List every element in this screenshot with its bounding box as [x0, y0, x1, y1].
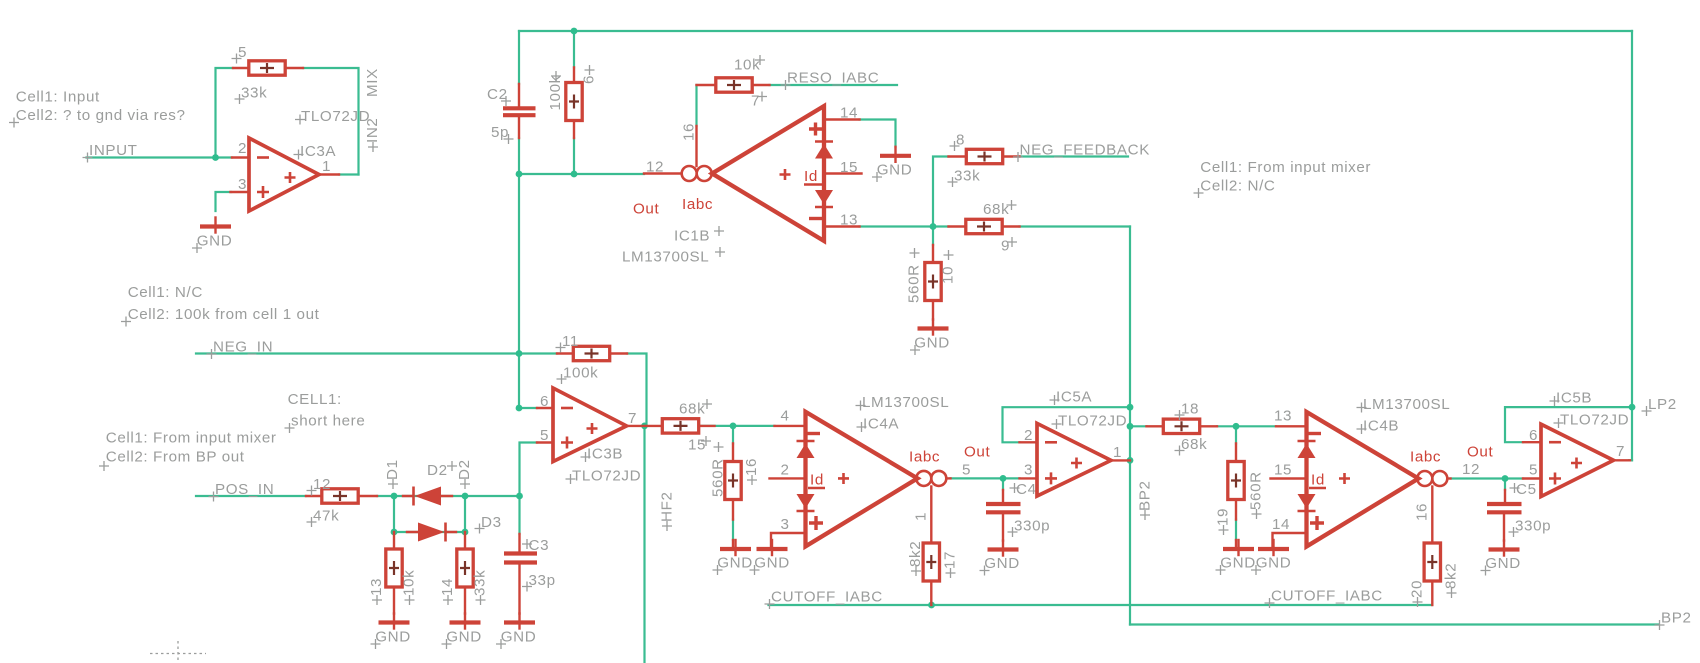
wire: IC3A feedback vertical — [216, 68, 234, 158]
svg-text:MIX: MIX — [364, 68, 381, 97]
node: diode row left top junction — [391, 493, 398, 500]
resistor R18 68k — [1147, 401, 1218, 456]
wire: BP2 long vertical — [1129, 227, 1131, 625]
diode D2 (upper, cathode left) — [384, 459, 473, 505]
svg-text:short here: short here — [291, 413, 365, 430]
wire: R16 bottom green segment — [732, 520, 734, 541]
net label BP2 (rotated, on vertical) — [1137, 480, 1154, 520]
svg-text:1: 1 — [913, 512, 930, 521]
op-amp OTA IC1B LM13700 (points left) — [622, 105, 862, 266]
svg-text:5: 5 — [962, 462, 971, 479]
svg-text:NEG_FEEDBACK: NEG_FEEDBACK — [1020, 142, 1150, 159]
svg-text:POS_IN: POS_IN — [215, 481, 274, 498]
resistor R10 560R (vertical) — [906, 245, 957, 320]
net label MIX (rotated) — [364, 68, 381, 97]
svg-text:Out: Out — [964, 444, 990, 461]
svg-text:14: 14 — [1272, 516, 1290, 533]
svg-text:4: 4 — [781, 408, 790, 425]
svg-text:C4: C4 — [1016, 481, 1037, 498]
wire: HF2 vertical to sheet bottom — [643, 426, 645, 663]
svg-text:Cell2: ? to gnd via res?: Cell2: ? to gnd via res? — [16, 107, 186, 124]
svg-text:2: 2 — [781, 462, 790, 479]
wire: POS_IN after R12 through diode row — [377, 495, 520, 497]
wire: LP2 junction down to IC5B output level — [1631, 407, 1633, 460]
svg-text:12: 12 — [646, 159, 664, 176]
svg-text:Cell2: 100k from cell 1 out: Cell2: 100k from cell 1 out — [128, 306, 320, 323]
svg-text:Cell2: From BP out: Cell2: From BP out — [106, 449, 245, 466]
wire: LP2 right vertical down to LP2 junction — [1631, 31, 1633, 407]
svg-text:TLO72JD: TLO72JD — [572, 468, 641, 485]
svg-text:8k2: 8k2 — [1443, 563, 1460, 589]
op-amp OTA IC4A LM13700 (points right) — [770, 394, 991, 549]
node: diode row right bottom junction — [462, 529, 469, 536]
wire: IC5B feedback loop — [1505, 407, 1632, 442]
svg-text:1: 1 — [1113, 444, 1122, 461]
svg-text:GND: GND — [1256, 555, 1292, 572]
svg-text:330p: 330p — [1014, 518, 1050, 535]
svg-text:8k2: 8k2 — [907, 541, 924, 567]
svg-text:GND: GND — [914, 335, 950, 352]
capacitor C4 330p — [986, 481, 1050, 541]
wire: R18 right to IC4B pin13 — [1217, 425, 1276, 427]
svg-text:47k: 47k — [313, 508, 339, 525]
resistor R11 100k — [556, 333, 628, 384]
node: diode row left bottom junction — [391, 529, 398, 536]
node: R17 bottom CUTOFF junction — [928, 602, 935, 609]
node: IC3B pin6 junction — [516, 405, 523, 412]
svg-text:19: 19 — [1215, 508, 1232, 526]
sheet origin marker (dashed cross) — [150, 641, 206, 663]
resistor R12 47k — [306, 476, 377, 527]
comment: right cell note — [1194, 159, 1372, 198]
net label BP2 (bottom right) — [1655, 610, 1692, 631]
ground for R16 — [713, 540, 753, 575]
node: IC3A input junction — [212, 154, 219, 161]
svg-text:16: 16 — [1414, 503, 1431, 521]
wire: lower diode row horizontal — [394, 531, 465, 533]
wire: IC3A output stub green — [339, 173, 359, 175]
wire: IC4A out to node and IC5A pin3 — [951, 477, 1020, 479]
wire: R15 right to IC4A pin4 — [700, 425, 775, 427]
svg-text:33k: 33k — [954, 168, 980, 185]
svg-text:IC3B: IC3B — [587, 446, 623, 463]
svg-text:16: 16 — [681, 123, 698, 141]
svg-text:IC5B: IC5B — [1556, 390, 1592, 407]
net label CUTOFF_IABC (right) — [1265, 588, 1383, 609]
wire: C5 top green segment — [1504, 479, 1506, 491]
ground for R19 — [1216, 540, 1256, 575]
resistor R5 33k (IC3A feedback) — [232, 44, 304, 104]
svg-text:13: 13 — [368, 578, 385, 596]
wire: IC3B out node to R15 — [645, 425, 647, 427]
svg-text:TLO72JD: TLO72JD — [1560, 412, 1629, 429]
wire: IC1B pin14 to GND — [860, 120, 896, 148]
wire: NEG_FEEDBACK after R8 — [1020, 155, 1129, 157]
svg-text:Cell1: From input mixer: Cell1: From input mixer — [106, 430, 277, 447]
svg-text:IC4A: IC4A — [863, 416, 899, 433]
resistor R20 8k2 (vertical, Iabc) — [1409, 543, 1460, 607]
svg-text:IC1B: IC1B — [674, 228, 710, 245]
ground for IC1B pin14 — [872, 147, 912, 182]
wire: IC3A pin3 wire to GND — [216, 192, 232, 211]
svg-text:IC5A: IC5A — [1056, 389, 1092, 406]
node: NEG_IN junction — [516, 350, 523, 357]
svg-text:33p: 33p — [529, 572, 556, 589]
svg-text:Out: Out — [1467, 444, 1493, 461]
resistor R19 560R (vertical) — [1215, 444, 1265, 536]
ground for C4 — [980, 541, 1020, 576]
wire: NEG_IN horizontal — [196, 352, 557, 354]
comment: CELL1 short here note — [285, 391, 366, 433]
svg-text:IC3A: IC3A — [300, 143, 336, 160]
svg-text:GND: GND — [1220, 555, 1256, 572]
svg-text:10k: 10k — [401, 570, 418, 596]
svg-text:LM13700SL: LM13700SL — [1363, 396, 1450, 413]
svg-text:TLO72JD: TLO72JD — [301, 108, 370, 125]
node: R18 branch junction — [1127, 423, 1134, 430]
svg-text:Iabc: Iabc — [909, 449, 940, 466]
svg-text:6: 6 — [540, 393, 549, 410]
svg-text:560R: 560R — [710, 458, 727, 497]
svg-text:TLO72JD: TLO72JD — [1058, 413, 1127, 430]
svg-text:5: 5 — [540, 427, 549, 444]
svg-text:BP2: BP2 — [1137, 480, 1154, 511]
node: R6 top junction — [571, 28, 578, 35]
svg-text:GND: GND — [1485, 555, 1521, 572]
wire: diode column left vertical — [393, 496, 395, 532]
resistor R17 8k2 (vertical, Iabc) — [907, 541, 959, 605]
wire: POS_IN horizontal — [196, 495, 306, 497]
node: IC5A output junction — [1127, 457, 1134, 464]
node: IC5A feedback junction — [1127, 404, 1134, 411]
svg-text:GND: GND — [446, 629, 482, 646]
svg-text:14: 14 — [439, 578, 456, 596]
wire: R9 right to long vertical — [1020, 225, 1131, 227]
svg-text:HF2: HF2 — [659, 492, 676, 523]
wire: C2 bottom green segment — [518, 138, 520, 174]
svg-text:12: 12 — [1462, 461, 1480, 478]
svg-text:5: 5 — [1529, 462, 1538, 479]
op-amp OTA IC4B LM13700 (points right) — [1271, 396, 1494, 549]
svg-text:C3: C3 — [529, 537, 550, 554]
svg-text:LM13700SL: LM13700SL — [622, 249, 709, 266]
svg-text:7: 7 — [751, 93, 760, 110]
wire: node down to R19 — [1235, 426, 1237, 443]
wire: C3 top green segment — [518, 496, 520, 534]
diode inside IC4B upper — [1298, 440, 1316, 443]
svg-text:15: 15 — [840, 159, 858, 176]
node: IC4A out / C4 junction — [1000, 475, 1007, 482]
svg-text:NEG_IN: NEG_IN — [213, 339, 273, 356]
svg-text:D2: D2 — [456, 459, 473, 480]
resistor R8 33k (to NEG_FEEDBACK) — [948, 132, 1020, 188]
net label IN2 (rotated) — [364, 118, 381, 152]
ground for R13 — [371, 614, 411, 650]
wire: R7 left corner down to IC1B pin16 — [695, 85, 697, 126]
svg-text:C5: C5 — [1516, 481, 1537, 498]
svg-text:CUTOFF_IABC: CUTOFF_IABC — [1271, 588, 1383, 605]
svg-text:9: 9 — [1001, 238, 1010, 255]
net label NEG_IN — [207, 339, 274, 360]
capacitor C2 5p — [487, 84, 536, 144]
wire: BP2 bottom horizontal — [1130, 623, 1658, 625]
net label RESO_IABC — [781, 70, 880, 91]
svg-text:Iabc: Iabc — [682, 196, 713, 213]
diode inside IC4B lower — [1298, 494, 1316, 509]
wire: node to R9 left — [933, 225, 949, 227]
net label INPUT — [83, 142, 138, 163]
svg-text:33k: 33k — [241, 85, 267, 102]
wire: vertical from IC1B-out node down to NEG_IN and IC3B pin6 — [518, 174, 520, 408]
node: R15/R16 junction — [730, 423, 737, 430]
wire: IC3B pin6 stub green — [519, 407, 537, 409]
svg-text:10k: 10k — [734, 57, 760, 74]
svg-text:33k: 33k — [472, 570, 489, 596]
svg-text:IC4B: IC4B — [1363, 418, 1399, 435]
wire: diode column right vertical — [464, 496, 466, 532]
net label POS_IN — [209, 481, 275, 502]
wire: LP2 top horizontal from C2 top to right side — [519, 30, 1632, 32]
svg-text:16: 16 — [743, 458, 760, 476]
resistor R6 100k (vertical) — [547, 65, 598, 138]
wire: R19 bottom green segment — [1235, 520, 1237, 541]
svg-text:D2: D2 — [427, 462, 448, 479]
svg-text:3: 3 — [781, 516, 790, 533]
ground for C5 — [1481, 541, 1521, 576]
ground for R14 — [442, 614, 482, 650]
resistor R13 10k (vertical) — [368, 532, 418, 614]
net label HF2 (rotated) — [659, 492, 676, 532]
diode inside IC1B lower — [815, 190, 833, 205]
svg-text:1: 1 — [322, 158, 331, 175]
svg-text:Cell1: N/C: Cell1: N/C — [128, 284, 203, 301]
svg-text:2: 2 — [238, 140, 247, 157]
svg-text:GND: GND — [984, 555, 1020, 572]
svg-text:68k: 68k — [983, 201, 1009, 218]
svg-text:CUTOFF_IABC: CUTOFF_IABC — [771, 589, 883, 606]
svg-text:14: 14 — [840, 105, 858, 122]
svg-text:CELL1:: CELL1: — [288, 391, 342, 408]
node: IC1B pin13 junction — [930, 223, 937, 230]
diode inside IC4A upper — [797, 440, 815, 443]
node: IC4B out / C5 junction — [1502, 475, 1509, 482]
svg-text:Cell1: Input: Cell1: Input — [16, 89, 100, 106]
wire: IC4B out to node and IC5B pin5 — [1451, 477, 1524, 479]
svg-text:3: 3 — [238, 176, 247, 193]
comment: cell1 N/C note — [121, 284, 320, 327]
wire: CUTOFF_IABC horizontal — [769, 604, 1433, 606]
svg-text:BP2: BP2 — [1661, 610, 1692, 627]
svg-text:330p: 330p — [1515, 518, 1551, 535]
svg-text:GND: GND — [877, 162, 913, 179]
svg-text:17: 17 — [942, 551, 959, 569]
ground for C3 — [496, 614, 536, 650]
svg-text:6: 6 — [581, 75, 598, 84]
svg-text:Id: Id — [1311, 472, 1325, 489]
resistor R14 33k (vertical) — [439, 532, 489, 614]
wire: R11 right to feedback corner — [627, 354, 647, 426]
op-amp U IC3A TL072 — [231, 108, 371, 211]
wire: RESO_IABC after R7 — [770, 84, 898, 86]
svg-text:Cell1: From input mixer: Cell1: From input mixer — [1200, 159, 1371, 176]
svg-text:Iabc: Iabc — [1410, 449, 1441, 466]
wire: POS_IN node up to IC3B pin5 — [520, 443, 538, 497]
svg-text:68k: 68k — [1181, 436, 1207, 453]
resistor R7 10k — [697, 55, 770, 110]
capacitor C3 33p — [504, 534, 556, 614]
svg-text:560R: 560R — [906, 264, 923, 303]
node: IC3B output junction HF2 — [641, 423, 648, 430]
wire: INPUT horizontal — [87, 156, 233, 158]
svg-text:GND: GND — [197, 233, 233, 250]
node: diode row right top junction — [462, 493, 469, 500]
svg-text:GND: GND — [717, 555, 753, 572]
svg-text:Out: Out — [633, 201, 659, 218]
net label NEG_FEEDBACK — [1013, 142, 1150, 163]
resistor R16 560R (vertical) — [710, 442, 761, 520]
svg-text:LP2: LP2 — [1648, 396, 1677, 413]
node: POS_IN riser junction — [516, 493, 523, 500]
svg-text:D1: D1 — [384, 459, 401, 480]
diode inside IC1B upper — [815, 140, 833, 143]
svg-text:7: 7 — [1616, 443, 1625, 460]
svg-text:13: 13 — [840, 212, 858, 229]
svg-text:GND: GND — [754, 555, 790, 572]
resistor R15 68k — [647, 399, 715, 454]
ground for R10 — [910, 320, 950, 356]
wire: IC5A feedback loop — [1003, 407, 1131, 442]
svg-text:68k: 68k — [679, 401, 705, 418]
node: LP2 junction — [1629, 404, 1636, 411]
wire: node down to R16 — [732, 426, 734, 444]
op-amp IC5A TL072 — [1020, 389, 1131, 497]
wire: IC5B output up to LP2 junction — [1629, 459, 1632, 461]
comment: from input mixer / BP out note — [99, 430, 277, 472]
svg-text:GND: GND — [501, 629, 537, 646]
node: C2 bottom junction — [516, 171, 523, 178]
node: R18/R19 junction — [1233, 423, 1240, 430]
svg-text:20: 20 — [1409, 580, 1426, 598]
wire: IC1B pin13 to node — [860, 225, 934, 227]
svg-text:560R: 560R — [1248, 471, 1265, 510]
wire: node down to R10 — [932, 227, 934, 246]
svg-text:Id: Id — [804, 168, 818, 185]
wire: R6 top lead (net side) — [573, 31, 575, 68]
wire: R6 bottom green segment — [573, 138, 575, 174]
svg-text:GND: GND — [375, 629, 411, 646]
diode inside IC4A lower — [797, 494, 815, 509]
svg-text:RESO_IABC: RESO_IABC — [787, 70, 879, 87]
svg-text:15: 15 — [688, 437, 706, 454]
op-amp IC5B TL072 — [1523, 390, 1630, 497]
resistor R9 68k — [949, 200, 1020, 255]
svg-text:3: 3 — [1024, 462, 1033, 479]
svg-text:7: 7 — [628, 410, 637, 427]
svg-text:15: 15 — [1274, 462, 1292, 479]
wire: C2 top lead (net side) — [518, 31, 520, 84]
wire: R18 branch from BP2 vertical — [1130, 425, 1147, 427]
ground for IC4B pin14 — [1251, 540, 1291, 575]
svg-text:Cell2: N/C: Cell2: N/C — [1200, 178, 1275, 195]
op-amp IC3B TL072 — [537, 388, 645, 485]
wire: node up and right to R8 — [933, 157, 949, 227]
svg-text:10: 10 — [940, 266, 957, 284]
capacitor C5 330p — [1487, 481, 1551, 541]
wire: C4 top green segment — [1002, 478, 1004, 490]
svg-text:Id: Id — [810, 472, 824, 489]
svg-text:6: 6 — [1529, 427, 1538, 444]
wire: R5 right to output vertical — [303, 68, 359, 175]
net label CUTOFF_IABC (left) — [765, 589, 883, 610]
wire: IC1B output horizontal to C2/R6 bottoms — [519, 173, 644, 175]
node: R6 bottom junction — [571, 171, 578, 178]
svg-text:IN2: IN2 — [364, 118, 381, 143]
ground for IC4A pin3 — [750, 540, 790, 575]
ground for IC3A pin3 — [192, 218, 232, 254]
svg-text:LM13700SL: LM13700SL — [862, 394, 949, 411]
net label LP2 — [1642, 396, 1677, 416]
diode D3 (lower, cathode right) — [407, 514, 502, 542]
svg-text:INPUT: INPUT — [89, 142, 138, 159]
svg-text:2: 2 — [1024, 427, 1033, 444]
comment: cell1 input note — [9, 89, 186, 128]
svg-text:13: 13 — [1274, 408, 1292, 425]
svg-text:100k: 100k — [563, 365, 598, 382]
